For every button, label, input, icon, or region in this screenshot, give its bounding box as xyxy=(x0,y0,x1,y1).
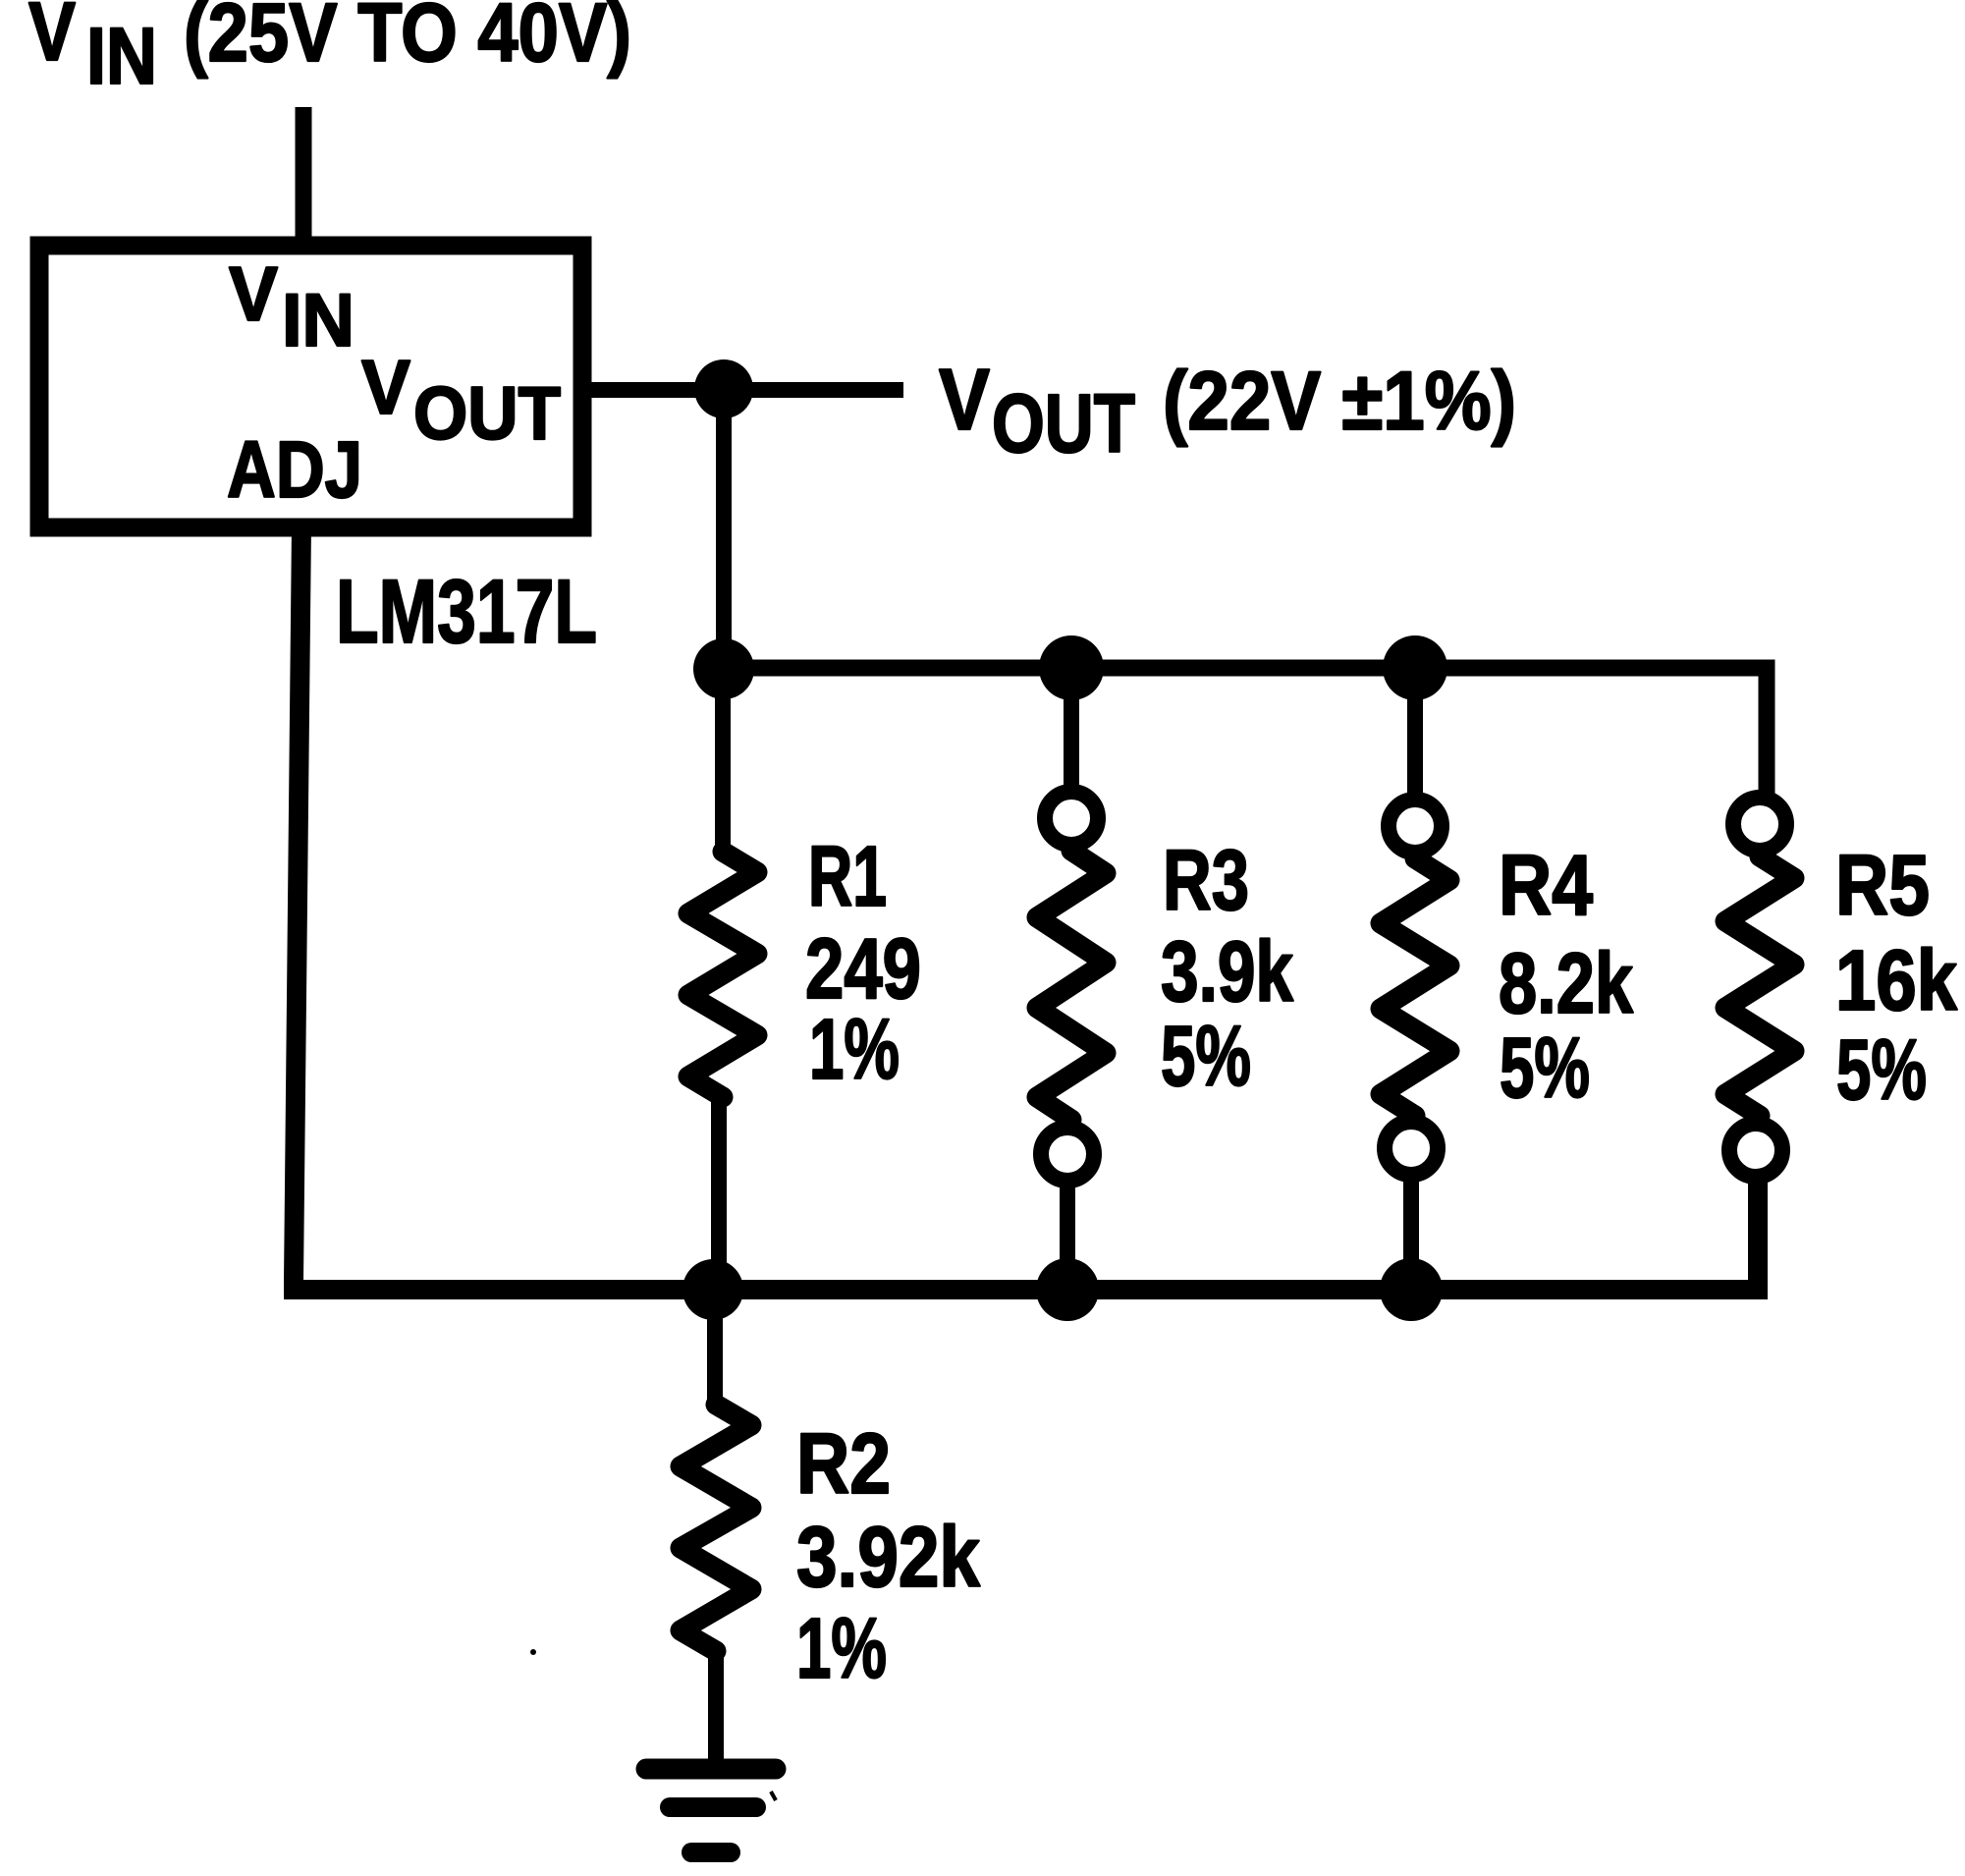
junction VOUT node xyxy=(694,359,753,418)
resistor R2 xyxy=(681,1290,751,1768)
label R4 value xyxy=(1499,838,1633,1116)
svg-text:5%: 5% xyxy=(1836,1022,1927,1118)
pin label VOUT xyxy=(361,344,561,456)
net label VIN (25V TO 40V) xyxy=(28,0,631,101)
junction R3 bottom xyxy=(1036,1258,1099,1321)
junction top bus left xyxy=(693,638,754,699)
svg-text:R3: R3 xyxy=(1163,833,1249,928)
resistor R5 with terminal circles xyxy=(1725,798,1794,1177)
label R1 value xyxy=(805,829,921,1097)
wire ADJ pin + bottom bus + R5 riser xyxy=(294,524,1758,1290)
label R2 value xyxy=(796,1416,981,1696)
svg-text:LM317L: LM317L xyxy=(336,562,597,662)
svg-text:V: V xyxy=(229,250,278,337)
svg-text:IN: IN xyxy=(282,279,355,362)
resistor R4 with terminal circles xyxy=(1381,668,1449,1290)
junction R1/R2 bottom node xyxy=(682,1259,743,1320)
svg-text:16k: 16k xyxy=(1835,933,1958,1028)
net label VOUT (22V +/-1%) xyxy=(939,351,1516,469)
svg-text:V: V xyxy=(361,344,410,430)
svg-text:V: V xyxy=(939,351,990,448)
junction R3 top xyxy=(1039,635,1104,700)
junction R4 top xyxy=(1383,635,1447,700)
svg-text:R2: R2 xyxy=(796,1416,891,1512)
wire VOUT node to top bus xyxy=(716,389,732,669)
svg-text:ADJ: ADJ xyxy=(227,425,362,515)
label R3 value xyxy=(1161,833,1293,1104)
svg-text:IN: IN xyxy=(86,12,157,101)
svg-text:1%: 1% xyxy=(796,1601,887,1696)
wire top bus with R5 drop xyxy=(724,668,1767,799)
regulator U1 LM317L box xyxy=(39,246,582,527)
svg-text:OUT: OUT xyxy=(413,372,561,456)
junction R4 bottom xyxy=(1380,1258,1443,1321)
scan artifact tick near ground xyxy=(771,1792,776,1800)
svg-text:(22V ±1%): (22V ±1%) xyxy=(1163,355,1516,447)
label R5 value xyxy=(1835,838,1958,1118)
pin label VIN xyxy=(229,250,355,362)
svg-text:OUT: OUT xyxy=(992,377,1135,469)
svg-text:(25V TO 40V): (25V TO 40V) xyxy=(184,0,631,79)
resistor R1 xyxy=(688,669,757,1290)
wire VOUT pin xyxy=(582,382,903,398)
svg-text:3.9k: 3.9k xyxy=(1161,924,1293,1020)
svg-text:R1: R1 xyxy=(808,829,887,924)
svg-text:R4: R4 xyxy=(1499,838,1593,933)
resistor R3 with terminal circles xyxy=(1037,668,1106,1290)
svg-text:1%: 1% xyxy=(809,1002,900,1097)
svg-text:V: V xyxy=(28,0,76,78)
svg-text:R5: R5 xyxy=(1835,838,1930,933)
svg-text:3.92k: 3.92k xyxy=(796,1510,981,1605)
ground symbol xyxy=(646,1769,776,1852)
scan artifact speck left of R2 xyxy=(530,1649,536,1655)
wire VIN input drop xyxy=(296,107,312,254)
svg-text:5%: 5% xyxy=(1500,1021,1590,1116)
svg-text:5%: 5% xyxy=(1161,1009,1251,1104)
svg-text:8.2k: 8.2k xyxy=(1499,936,1633,1031)
